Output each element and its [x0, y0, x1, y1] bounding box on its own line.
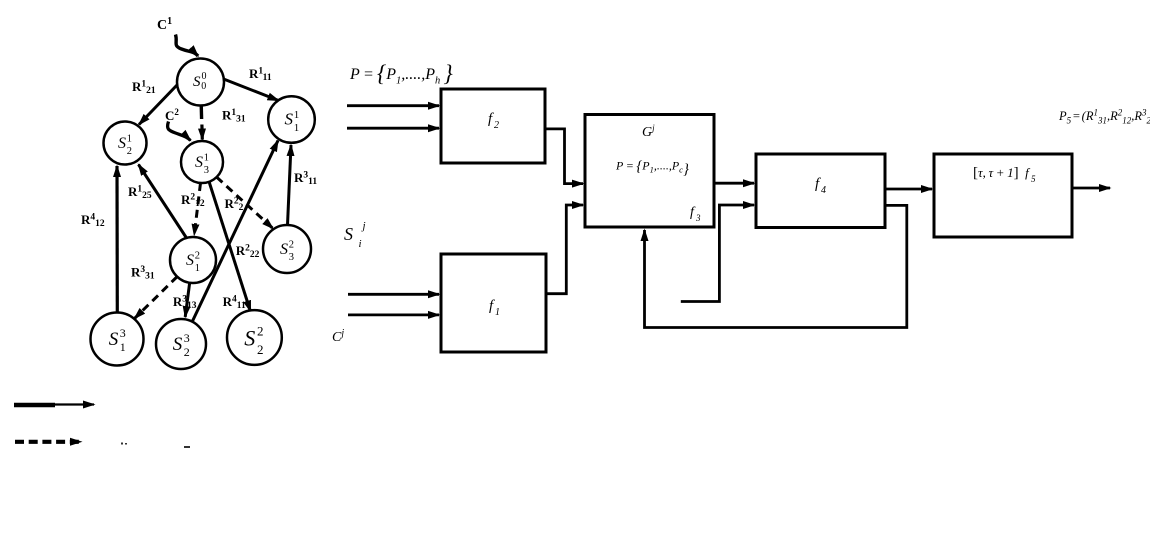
wire S00 to S31 (R1_31) upper segment	[199, 104, 203, 119]
svg-text:R121: R121	[132, 79, 156, 96]
svg-text:S: S	[285, 110, 294, 129]
block f1	[441, 254, 546, 352]
svg-text:1: 1	[294, 122, 300, 134]
svg-text:3: 3	[204, 165, 209, 176]
wire f5 output arrow	[1072, 187, 1110, 190]
svg-text:Cj: Cj	[332, 328, 344, 345]
svg-text:j: j	[361, 220, 366, 232]
svg-text:2: 2	[127, 146, 132, 157]
wire S31 to S22 (R4_11)	[209, 182, 251, 312]
legend small marks	[121, 443, 190, 449]
wire S00 to S11 (R1_11)	[222, 79, 278, 101]
wire C1 squiggle arrow into S00	[176, 35, 199, 57]
wire S00 to S31 (R1_31) lower segment with arrow	[200, 125, 204, 140]
node S00	[177, 59, 224, 106]
svg-text:2: 2	[257, 323, 264, 338]
svg-text:2: 2	[257, 342, 264, 357]
svg-text:S: S	[193, 74, 201, 90]
node C1 label	[157, 16, 172, 33]
svg-text:C1: C1	[157, 16, 172, 33]
wire f2 output into G	[545, 129, 583, 184]
svg-text:S: S	[173, 334, 183, 355]
svg-text:2: 2	[289, 240, 294, 251]
block f2	[441, 89, 545, 163]
wire S32 to S11 (R3_11)	[288, 145, 292, 225]
wire S31 to S32 dashed (R2_2)	[217, 177, 274, 229]
block f5	[934, 154, 1072, 237]
wire S13 to S21 (R4_12)	[115, 166, 119, 314]
node S13	[91, 313, 144, 366]
wire input arrow 2 into f2	[347, 127, 439, 130]
wire S12 to S13 dashed (R3_31)	[135, 277, 178, 319]
node S21	[104, 122, 147, 165]
wire input arrow 2 into f1	[348, 313, 439, 316]
wire C2 squiggle arrow into S31	[168, 122, 191, 141]
svg-text:3: 3	[289, 252, 294, 263]
svg-text:S: S	[280, 241, 288, 258]
svg-text:R412: R412	[81, 212, 105, 229]
svg-text:P = {P1,....,Ph }: P = {P1,....,Ph }	[349, 61, 453, 87]
svg-text:S: S	[244, 326, 255, 351]
wire input arrow 1 into f2	[347, 104, 439, 107]
svg-text:S: S	[109, 329, 119, 350]
svg-text:5: 5	[1031, 174, 1036, 184]
wire S31 to S12 dashed (R2_12)	[194, 183, 200, 235]
legend dashed arrow	[15, 440, 81, 444]
wire S00 to S21 (R1_21)	[139, 85, 178, 125]
wire f4 feedback loop into G bottom	[645, 205, 907, 327]
wire G output into f4	[714, 182, 754, 185]
node S32	[263, 225, 311, 273]
svg-text:S: S	[344, 224, 353, 244]
node S22	[227, 310, 282, 365]
svg-text:S: S	[195, 154, 203, 171]
svg-text:1: 1	[127, 134, 132, 145]
svg-text:R311: R311	[294, 170, 317, 187]
svg-text:1: 1	[495, 307, 500, 318]
svg-text:S: S	[118, 135, 126, 152]
node S11	[268, 96, 315, 143]
block G (f3)	[585, 115, 714, 228]
svg-text:[τ, τ + 1] f: [τ, τ + 1] f	[973, 165, 1031, 181]
svg-text:R411: R411	[223, 294, 246, 311]
svg-text:2: 2	[195, 251, 200, 262]
svg-text:4: 4	[821, 185, 826, 196]
svg-text:3: 3	[120, 326, 126, 340]
wire S12 to S23 (R3_13)	[185, 283, 190, 318]
wire f1 output into G	[546, 205, 583, 294]
svg-text:R131: R131	[222, 108, 246, 125]
node C2 label	[165, 107, 179, 123]
svg-text:1: 1	[204, 153, 209, 164]
node S12	[170, 237, 216, 283]
wire S23 to S11 (R2_22)	[192, 141, 278, 322]
svg-text:1: 1	[195, 263, 200, 274]
wire stub feedback into f4 second input	[681, 205, 754, 302]
svg-text:P5 = (R131,R212,R323,R: P5 = (R131,R212,R323,R	[1058, 108, 1150, 126]
svg-text:R111: R111	[249, 66, 272, 83]
svg-text:R212: R212	[181, 192, 205, 209]
wire f4 output into f5	[885, 188, 932, 191]
node S31	[181, 141, 223, 183]
wire input arrow 1 into f1	[348, 293, 439, 296]
svg-text:S: S	[186, 252, 194, 269]
wire S12 to S21 (R1_25)	[139, 165, 188, 240]
svg-text:0: 0	[201, 81, 206, 92]
svg-text:2: 2	[494, 120, 499, 131]
node S23	[156, 319, 206, 369]
legend solid arrow	[14, 403, 94, 406]
svg-text:2: 2	[184, 345, 190, 359]
svg-text:3: 3	[184, 331, 190, 345]
svg-text:i: i	[359, 238, 362, 250]
svg-text:3: 3	[695, 213, 701, 223]
block f4	[756, 154, 885, 228]
svg-text:R222: R222	[236, 243, 260, 260]
svg-text:1: 1	[120, 340, 126, 354]
svg-text:C2: C2	[165, 107, 179, 123]
svg-text:R331: R331	[131, 265, 155, 282]
svg-text:R125: R125	[128, 184, 152, 201]
svg-text:1: 1	[294, 109, 300, 121]
